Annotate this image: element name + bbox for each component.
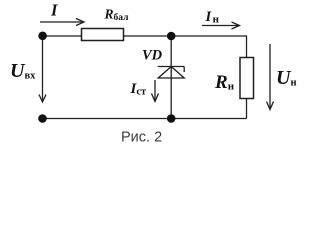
node: zener bottom junction [167,114,176,123]
wire: zener branch [170,36,172,119]
svg-text:Uн: Uн [276,67,297,89]
svg-text:Рис. 2: Рис. 2 [121,129,162,145]
wire: right branch lower [246,99,248,119]
wire: top rail middle segment [124,35,247,37]
node: input top terminal [38,32,47,41]
zener diode VD [158,67,185,79]
arrow: voltage Uвх [39,40,46,102]
svg-text:Iст: Iст [130,81,148,98]
node: input bottom terminal [38,114,47,123]
arrow: current Iст [152,80,159,102]
wire: right branch upper [246,35,248,57]
svg-text:VD: VD [142,48,163,64]
arrow: current I [40,19,84,26]
resistor Rн [240,58,254,99]
svg-text:I: I [50,1,58,20]
svg-text:Uвх: Uвх [10,60,36,82]
svg-text:Rн: Rн [214,72,235,93]
arrow: voltage Uн [267,44,274,110]
resistor Rбал [82,29,124,41]
svg-text:Iн: Iн [205,9,220,26]
wire: top rail left segment [43,35,82,37]
svg-text:Rбал: Rбал [104,6,130,23]
arrow: current Iн [202,22,240,29]
node: zener top junction [167,32,176,41]
wire: bottom rail [43,118,247,120]
